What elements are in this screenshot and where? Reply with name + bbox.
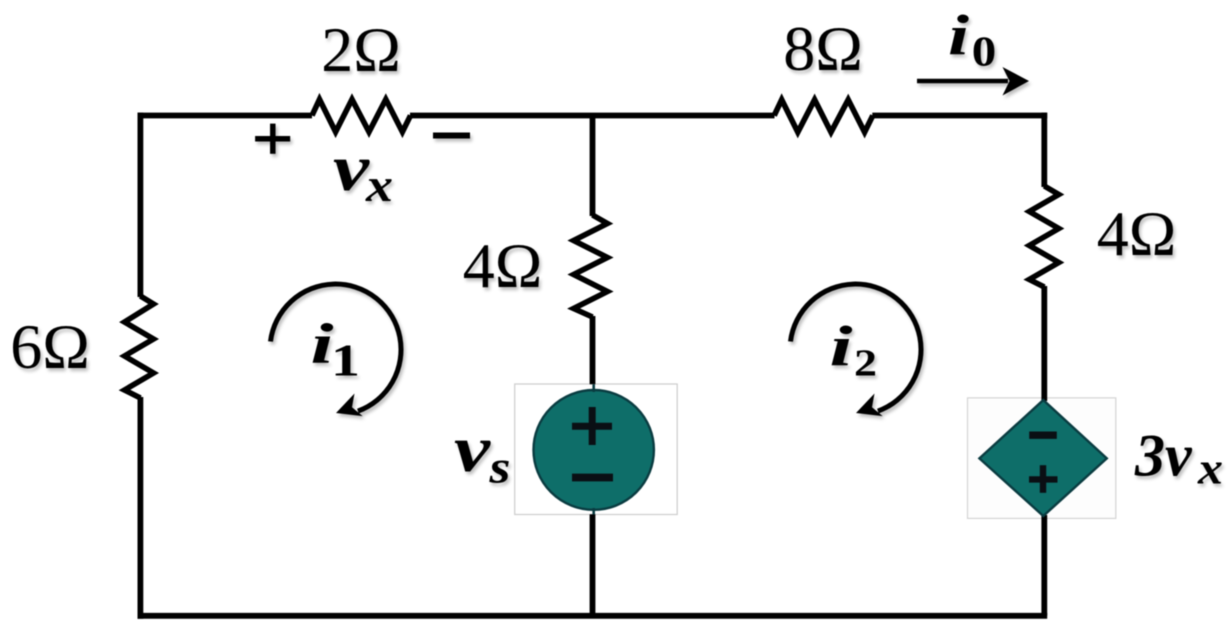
wire top horizontal right segment bbox=[872, 113, 1047, 119]
resistor R 6ohm zigzag bbox=[125, 296, 154, 398]
mesh loop i2 arrowhead bbox=[856, 394, 883, 417]
arrow i0 head bbox=[1003, 67, 1030, 96]
white box behind vs source bbox=[515, 384, 678, 515]
wire middle vertical between resistor and vs box bbox=[590, 316, 596, 384]
svg-text:x: x bbox=[365, 159, 393, 212]
wire left vertical upper bbox=[137, 113, 143, 297]
svg-text:i: i bbox=[948, 5, 969, 68]
svg-text:v: v bbox=[333, 132, 370, 205]
wire left vertical lower bbox=[137, 397, 143, 619]
wire right vertical lower bbox=[1041, 515, 1047, 616]
svg-text:i: i bbox=[830, 316, 853, 379]
svg-text:2Ω: 2Ω bbox=[321, 14, 401, 85]
diamond plus sign bbox=[1029, 465, 1058, 493]
arrow i0 line bbox=[917, 79, 1008, 84]
svg-text:v: v bbox=[454, 413, 491, 486]
wire right vertical between resistor and diamond bbox=[1041, 286, 1047, 401]
svg-text:s: s bbox=[488, 441, 510, 493]
svg-text:6Ω: 6Ω bbox=[10, 311, 90, 382]
vs bottom stub bbox=[592, 508, 595, 515]
diamond minus sign bbox=[1029, 432, 1057, 439]
dependent source 3vx diamond bbox=[979, 400, 1106, 516]
wire top horizontal left segment bbox=[138, 113, 312, 119]
resistor R 8ohm zigzag bbox=[774, 100, 873, 133]
svg-text:3v: 3v bbox=[1134, 423, 1193, 489]
plus sign polarity left of 2ohm bbox=[255, 124, 290, 154]
wire middle vertical upper bbox=[590, 116, 596, 217]
wire top horizontal middle segment bbox=[410, 113, 775, 119]
svg-text:1: 1 bbox=[331, 335, 360, 386]
mesh loop i2 arc bbox=[791, 284, 922, 411]
svg-text:4Ω: 4Ω bbox=[1097, 198, 1177, 269]
svg-text:x: x bbox=[1197, 443, 1223, 494]
voltage source vs circle bbox=[534, 390, 654, 510]
minus sign polarity right of 2ohm bbox=[433, 133, 470, 139]
vs plus sign bbox=[572, 407, 612, 445]
white box behind 3vx source bbox=[968, 398, 1116, 519]
svg-text:4Ω: 4Ω bbox=[463, 230, 543, 301]
svg-text:2: 2 bbox=[854, 343, 877, 385]
wire right vertical upper bbox=[1041, 113, 1047, 187]
svg-text:0: 0 bbox=[972, 29, 997, 75]
resistor R 4ohm right zigzag bbox=[1029, 186, 1059, 287]
resistor R 4ohm middle zigzag bbox=[574, 215, 608, 317]
vs top stub bbox=[592, 384, 595, 392]
wire bottom horizontal bbox=[138, 613, 1048, 619]
mesh loop i1 arc bbox=[271, 284, 402, 411]
svg-text:8Ω: 8Ω bbox=[783, 13, 863, 84]
wire middle vertical lower bbox=[590, 514, 596, 616]
mesh loop i1 arrowhead bbox=[336, 394, 363, 417]
vs minus sign bbox=[572, 474, 613, 482]
resistor R 2ohm zigzag bbox=[312, 99, 411, 131]
